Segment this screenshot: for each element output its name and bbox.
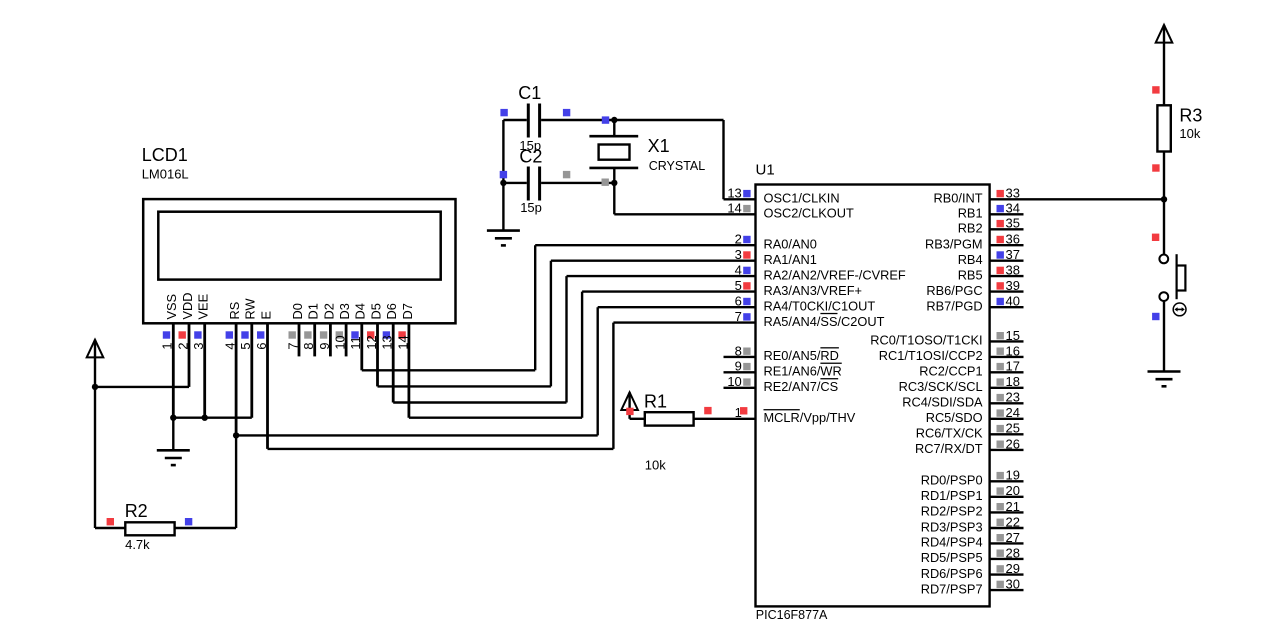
MCU pin 22 right [921, 514, 1024, 534]
MCU pin 17 right [919, 359, 1023, 379]
svg-text:40: 40 [1006, 294, 1020, 309]
MCU pin 23 right [902, 390, 1023, 410]
svg-text:RE0/AN5/RD: RE0/AN5/RD [764, 348, 839, 363]
resistor R2 reference label [125, 501, 148, 521]
capacitor C1 value 15p [519, 138, 541, 153]
node R1 left square [626, 408, 633, 415]
svg-text:VEE: VEE [196, 294, 211, 320]
LCD pin 7 indicator square [289, 331, 296, 338]
LCD pin 8 indicator square [304, 331, 311, 338]
power terminal VDD R3 [1156, 25, 1173, 43]
svg-text:7: 7 [735, 309, 742, 324]
svg-text:RC0/T1OSO/T1CKI: RC0/T1OSO/T1CKI [870, 333, 982, 348]
svg-text:15p: 15p [520, 200, 542, 215]
LCD pin 2 indicator square [179, 331, 186, 338]
LCD pin number 14 [395, 335, 410, 349]
MCU pin 30 right [921, 577, 1024, 597]
MCU pin 13 left [724, 186, 840, 206]
wire X1 to OSC1 [614, 120, 723, 199]
LCD pin number 3 [191, 342, 206, 349]
LCD pin label D7 [400, 303, 415, 319]
MCU U1 body [756, 185, 990, 607]
svg-text:37: 37 [1006, 247, 1020, 262]
resistor R1 reference label [644, 392, 667, 412]
svg-text:R3: R3 [1179, 106, 1202, 126]
node button bottom square [1152, 313, 1159, 320]
svg-text:23: 23 [1006, 390, 1020, 405]
MCU U1 value label PIC16F877A [756, 608, 828, 622]
LCD pin label RW [243, 297, 258, 319]
svg-text:30: 30 [1006, 577, 1020, 592]
wire LCD D7 pin 14 down [407, 323, 410, 417]
node X1 bottom square [602, 179, 609, 186]
node X1 top junction [611, 117, 617, 123]
svg-text:26: 26 [1006, 436, 1020, 451]
MCU pin 4 left [735, 263, 906, 283]
resistor R3 body [1157, 105, 1170, 151]
MCU pin 21 right [921, 499, 1024, 519]
svg-text:VDD: VDD [180, 292, 195, 319]
svg-text:RC1/T1OSI/CCP2: RC1/T1OSI/CCP2 [879, 348, 983, 363]
wire RA1-D5 net [378, 261, 756, 387]
svg-text:D0: D0 [290, 303, 305, 319]
ground symbol left [157, 450, 190, 465]
svg-text:24: 24 [1006, 405, 1020, 420]
LCD pin number 2 [175, 342, 190, 349]
svg-text:RE2/AN7/CS: RE2/AN7/CS [764, 379, 839, 394]
svg-text:16: 16 [1006, 343, 1020, 358]
crystal X1 reference label [648, 136, 670, 156]
svg-text:2: 2 [735, 232, 742, 247]
wire node to button [1163, 199, 1165, 254]
svg-text:13: 13 [727, 186, 741, 201]
svg-text:RB5: RB5 [958, 267, 983, 282]
LCD pin number 5 [238, 342, 253, 349]
svg-text:RC6/TX/CK: RC6/TX/CK [916, 426, 983, 441]
LCD pin label VDD [180, 292, 195, 319]
wire RA5-E net [268, 323, 756, 449]
wire C1-C2 left rail [502, 120, 504, 231]
svg-text:E: E [258, 311, 273, 320]
MCU pin 35 right [958, 216, 1024, 236]
LCD pin 10 indicator square [336, 331, 343, 338]
capacitor C2 plates [528, 167, 539, 201]
svg-text:RC7/RX/DT: RC7/RX/DT [915, 441, 983, 456]
LCD pin label D2 [321, 303, 336, 319]
LCD pin number 1 [160, 342, 175, 349]
svg-text:4.7k: 4.7k [125, 537, 150, 552]
svg-text:RC5/SDO: RC5/SDO [926, 410, 983, 425]
wire VDD to LCD pin2 [95, 386, 189, 388]
svg-text:X1: X1 [648, 136, 670, 156]
svg-text:34: 34 [1006, 201, 1020, 216]
wire X1 top lead [613, 120, 615, 136]
wire LCD VSS pin 1 down [172, 323, 175, 417]
svg-text:PIC16F877A: PIC16F877A [756, 608, 828, 622]
LCD pin number 7 [285, 342, 300, 349]
LCD pin 12 indicator square [367, 331, 374, 338]
svg-text:18: 18 [1006, 374, 1020, 389]
svg-text:RD6/PSP6: RD6/PSP6 [921, 566, 983, 581]
svg-text:R2: R2 [125, 501, 148, 521]
LCD pin label VEE [196, 294, 211, 320]
power terminal VDD R1 [621, 392, 638, 410]
wire C1 right lead [541, 119, 614, 121]
crystal X1 top plate [589, 135, 638, 138]
MCU pin 36 right [925, 232, 1024, 252]
svg-text:RD0/PSP0: RD0/PSP0 [921, 473, 983, 488]
resistor R1 body [645, 412, 694, 425]
svg-text:RD5/PSP5: RD5/PSP5 [921, 550, 983, 565]
MCU pin 8 left [724, 343, 839, 363]
LCD pin number 12 [364, 335, 379, 349]
ground symbol button [1148, 372, 1181, 387]
svg-text:RA5/AN4/SS/C2OUT: RA5/AN4/SS/C2OUT [764, 314, 885, 329]
push button contacts [1159, 255, 1168, 302]
svg-text:10: 10 [727, 374, 741, 389]
node RS junction [233, 432, 239, 438]
MCU pin 39 right [926, 278, 1023, 298]
LCD pin label RS [227, 302, 242, 320]
svg-text:C1: C1 [518, 83, 541, 103]
wire C2 left lead [503, 182, 526, 184]
LCD pin label D4 [353, 303, 368, 319]
wire RA3-D7 net [409, 292, 756, 418]
crystal X1 value CRYSTAL [649, 159, 706, 173]
wire X1 bottom lead [613, 168, 615, 183]
wire button to ground [1163, 301, 1165, 372]
wire R1 arrow lead [630, 392, 645, 419]
svg-text:29: 29 [1006, 561, 1020, 576]
LCD pin number 6 [254, 342, 269, 349]
node VDD-VDDpin junction [92, 384, 98, 390]
LCD pin label E [258, 311, 273, 320]
node C1 right square [563, 109, 570, 116]
svg-text:25: 25 [1006, 421, 1020, 436]
svg-text:RB1: RB1 [958, 206, 983, 221]
LCD pin 11 indicator square [351, 331, 358, 338]
LCD pin number 13 [380, 335, 395, 349]
MCU pin 33 right [934, 186, 1024, 206]
wire R3 bottom lead [1163, 152, 1165, 200]
MCU U1 reference label [756, 161, 775, 178]
svg-text:CRYSTAL: CRYSTAL [649, 159, 706, 173]
wire ground stem [172, 418, 174, 451]
svg-text:LM016L: LM016L [142, 167, 189, 182]
capacitor C2 reference label [519, 147, 542, 167]
crystal X1 body [599, 145, 630, 160]
resistor R2 value 4.7k [125, 537, 150, 552]
LCD pin label D3 [337, 303, 352, 319]
svg-text:MCLR/Vpp/THV: MCLR/Vpp/THV [764, 410, 856, 425]
MCU pin 1 left [735, 405, 856, 425]
svg-text:33: 33 [1006, 186, 1020, 201]
push button toggle icon [1173, 303, 1186, 316]
resistor R2 body [125, 522, 174, 535]
wire LCD VDD pin 2 down [188, 323, 191, 387]
svg-text:RC4/SDI/SDA: RC4/SDI/SDA [902, 395, 983, 410]
svg-text:RB7/PGD: RB7/PGD [926, 299, 982, 314]
svg-text:6: 6 [735, 294, 742, 309]
MCU pin 34 right [958, 201, 1024, 221]
svg-text:RD3/PSP3: RD3/PSP3 [921, 519, 983, 534]
svg-text:C2: C2 [519, 147, 542, 167]
resistor R3 value 10k [1179, 126, 1200, 141]
MCU pin 10 left [724, 374, 839, 394]
MCU pin 15 right [870, 328, 1023, 348]
wire RB0 to R3 node [1024, 198, 1165, 200]
svg-text:RW: RW [243, 297, 258, 319]
svg-text:OSC1/CLKIN: OSC1/CLKIN [764, 191, 840, 206]
wire VDD rail vertical [94, 340, 96, 528]
wire ground rail horizontal [173, 417, 252, 419]
wire RS node vertical [235, 435, 237, 528]
MCU pin 3 left [735, 247, 817, 267]
node R3 bottom square [1152, 164, 1159, 171]
wire LCD D2 stub [329, 323, 332, 356]
MCU pin 29 right [921, 561, 1024, 581]
svg-text:4: 4 [735, 263, 742, 278]
LCD pin label D6 [384, 303, 399, 319]
MCU pin 25 right [916, 421, 1024, 441]
svg-text:D4: D4 [353, 303, 368, 319]
svg-text:D3: D3 [337, 303, 352, 319]
svg-text:35: 35 [1006, 216, 1020, 231]
svg-text:D6: D6 [384, 303, 399, 319]
svg-text:R1: R1 [644, 392, 667, 412]
svg-text:U1: U1 [756, 161, 775, 178]
capacitor C1 reference label [518, 83, 541, 103]
LCD pin 1 indicator square [163, 331, 170, 338]
svg-text:RE1/AN6/WR: RE1/AN6/WR [764, 364, 842, 379]
svg-text:VSS: VSS [164, 294, 179, 320]
wire X1 to OSC2 [614, 183, 723, 214]
node button top square [1152, 234, 1159, 241]
LCD LCD1 value label LM016L [142, 167, 189, 182]
LCD pin 5 indicator square [241, 331, 248, 338]
wire LCD VEE pin 3 down [203, 323, 206, 417]
svg-text:D2: D2 [321, 303, 336, 319]
capacitor C2 value 15p [520, 200, 542, 215]
svg-text:38: 38 [1006, 263, 1020, 278]
svg-text:3: 3 [735, 247, 742, 262]
MCU pin 40 right [926, 294, 1023, 314]
svg-text:RD2/PSP2: RD2/PSP2 [921, 504, 983, 519]
MCU pin 9 left [724, 359, 842, 379]
wire C1 left lead [503, 119, 526, 121]
resistor R1 value 10k [645, 458, 666, 473]
wire RA2-D6 net [393, 276, 755, 402]
MCU pin 28 right [921, 545, 1024, 565]
LCD pin 9 indicator square [320, 331, 327, 338]
svg-text:RC3/SCK/SCL: RC3/SCK/SCL [899, 379, 983, 394]
wire R2 left lead [95, 527, 125, 529]
svg-text:21: 21 [1006, 499, 1020, 514]
svg-text:RD4/PSP4: RD4/PSP4 [921, 535, 983, 550]
svg-text:27: 27 [1006, 530, 1020, 545]
node C2 left square [500, 171, 507, 178]
wire C2 right lead [541, 182, 614, 184]
MCU pin 19 right [921, 468, 1024, 488]
LCD LCD1 reference label [142, 145, 188, 165]
node R3 top square [1152, 86, 1159, 93]
svg-text:17: 17 [1006, 359, 1020, 374]
svg-text:RS: RS [227, 302, 242, 320]
svg-text:9: 9 [735, 359, 742, 374]
MCU pin 14 left [724, 201, 854, 221]
svg-text:19: 19 [1006, 468, 1020, 483]
svg-text:RB6/PGC: RB6/PGC [926, 283, 982, 298]
resistor R3 reference label [1179, 106, 1202, 126]
LCD pin number 4 [223, 342, 238, 349]
wire LCD D6 pin 13 down [392, 323, 395, 402]
svg-text:RC2/CCP1: RC2/CCP1 [919, 364, 982, 379]
svg-text:39: 39 [1006, 278, 1020, 293]
node RB0 junction [1161, 196, 1167, 202]
wire LCD D0 stub [298, 323, 301, 356]
wire LCD D4 pin 11 down [360, 323, 363, 370]
svg-text:OSC2/CLKOUT: OSC2/CLKOUT [764, 206, 854, 221]
wire R2 right lead [175, 527, 237, 529]
MCU pin 37 right [958, 247, 1024, 267]
LCD pin label D5 [368, 303, 383, 319]
wire LCD D1 stub [313, 323, 316, 356]
svg-text:D1: D1 [306, 303, 321, 319]
LCD pin number 11 [348, 336, 363, 349]
svg-text:RB4: RB4 [958, 252, 983, 267]
node R2 left square [107, 518, 114, 525]
wire LCD RW pin 5 down [250, 323, 253, 417]
ground symbol crystal [487, 231, 520, 246]
MCU pin 24 right [926, 405, 1024, 425]
power terminal VDD left [87, 340, 104, 358]
MCU pin 26 right [915, 436, 1023, 456]
node C1 left square [500, 109, 507, 116]
MCU pin 7 left [735, 309, 885, 329]
MCU pin 18 right [899, 374, 1024, 394]
svg-text:10k: 10k [645, 458, 666, 473]
svg-text:RB3/PGM: RB3/PGM [925, 237, 983, 252]
svg-text:D5: D5 [368, 303, 383, 319]
MCU pin 27 right [921, 530, 1024, 550]
svg-text:RA3/AN3/VREF+: RA3/AN3/VREF+ [764, 283, 863, 298]
svg-text:5: 5 [735, 278, 742, 293]
svg-text:14: 14 [727, 201, 741, 216]
wire LCD D5 pin 12 down [376, 323, 379, 386]
MCU pin 5 left [735, 278, 862, 298]
svg-text:20: 20 [1006, 483, 1020, 498]
node ground rail junction B [202, 415, 208, 421]
MCU pin 20 right [921, 483, 1024, 503]
node C2 right square [563, 171, 570, 178]
capacitor C1 plates [528, 104, 539, 138]
LCD pin 13 indicator square [383, 331, 390, 338]
node X1 top square [602, 116, 609, 123]
svg-text:RA4/T0CKI/C1OUT: RA4/T0CKI/C1OUT [764, 299, 876, 314]
wire LCD E pin 6 down [266, 323, 269, 449]
LCD pin 4 indicator square [226, 331, 233, 338]
crystal X1 bottom plate [589, 167, 638, 170]
svg-text:10k: 10k [1179, 126, 1200, 141]
LCD pin 14 indicator square [398, 331, 405, 338]
svg-text:1: 1 [735, 405, 742, 420]
svg-text:RA0/AN0: RA0/AN0 [764, 237, 817, 252]
wire R3 top lead [1163, 25, 1165, 105]
svg-text:8: 8 [735, 343, 742, 358]
LCD LCD1 body [143, 199, 455, 323]
node C2 left junction [500, 180, 506, 186]
svg-text:D7: D7 [400, 303, 415, 319]
wire R1 to MCLR [694, 418, 756, 420]
MCU pin 6 left [735, 294, 876, 314]
node ground rail junction A [170, 415, 176, 421]
svg-text:RA2/AN2/VREF-/CVREF: RA2/AN2/VREF-/CVREF [764, 267, 906, 282]
node MCLR pin square [740, 407, 747, 414]
svg-text:RB2: RB2 [958, 221, 983, 236]
svg-text:RD7/PSP7: RD7/PSP7 [921, 581, 983, 596]
svg-text:36: 36 [1006, 232, 1020, 247]
LCD pin number 9 [317, 342, 332, 349]
svg-text:15: 15 [1006, 328, 1020, 343]
wire LCD D3 stub [345, 323, 348, 356]
svg-text:28: 28 [1006, 545, 1020, 560]
LCD pin number 10 [333, 335, 348, 349]
node R2 right square [185, 518, 192, 525]
push button actuator [1177, 254, 1186, 299]
MCU pin 16 right [879, 343, 1024, 363]
LCD pin label D0 [290, 303, 305, 319]
svg-text:LCD1: LCD1 [142, 145, 188, 165]
MCU pin 2 left [735, 232, 817, 252]
wire LCD RS pin 4 down [235, 323, 238, 435]
LCD pin 6 indicator square [257, 331, 264, 338]
node R1 right square [704, 407, 711, 414]
svg-text:RA1/AN1: RA1/AN1 [764, 252, 817, 267]
wire RA4-RS net [236, 307, 755, 435]
svg-text:22: 22 [1006, 514, 1020, 529]
LCD pin label VSS [164, 294, 179, 320]
MCU pin 38 right [958, 263, 1024, 283]
svg-text:RD1/PSP1: RD1/PSP1 [921, 488, 983, 503]
LCD pin number 8 [301, 342, 316, 349]
svg-text:RB0/INT: RB0/INT [934, 191, 983, 206]
wire RA0-D4 net [362, 245, 756, 370]
node X1 bottom junction [611, 180, 617, 186]
LCD pin 3 indicator square [194, 331, 201, 338]
LCD pin label D1 [306, 303, 321, 319]
